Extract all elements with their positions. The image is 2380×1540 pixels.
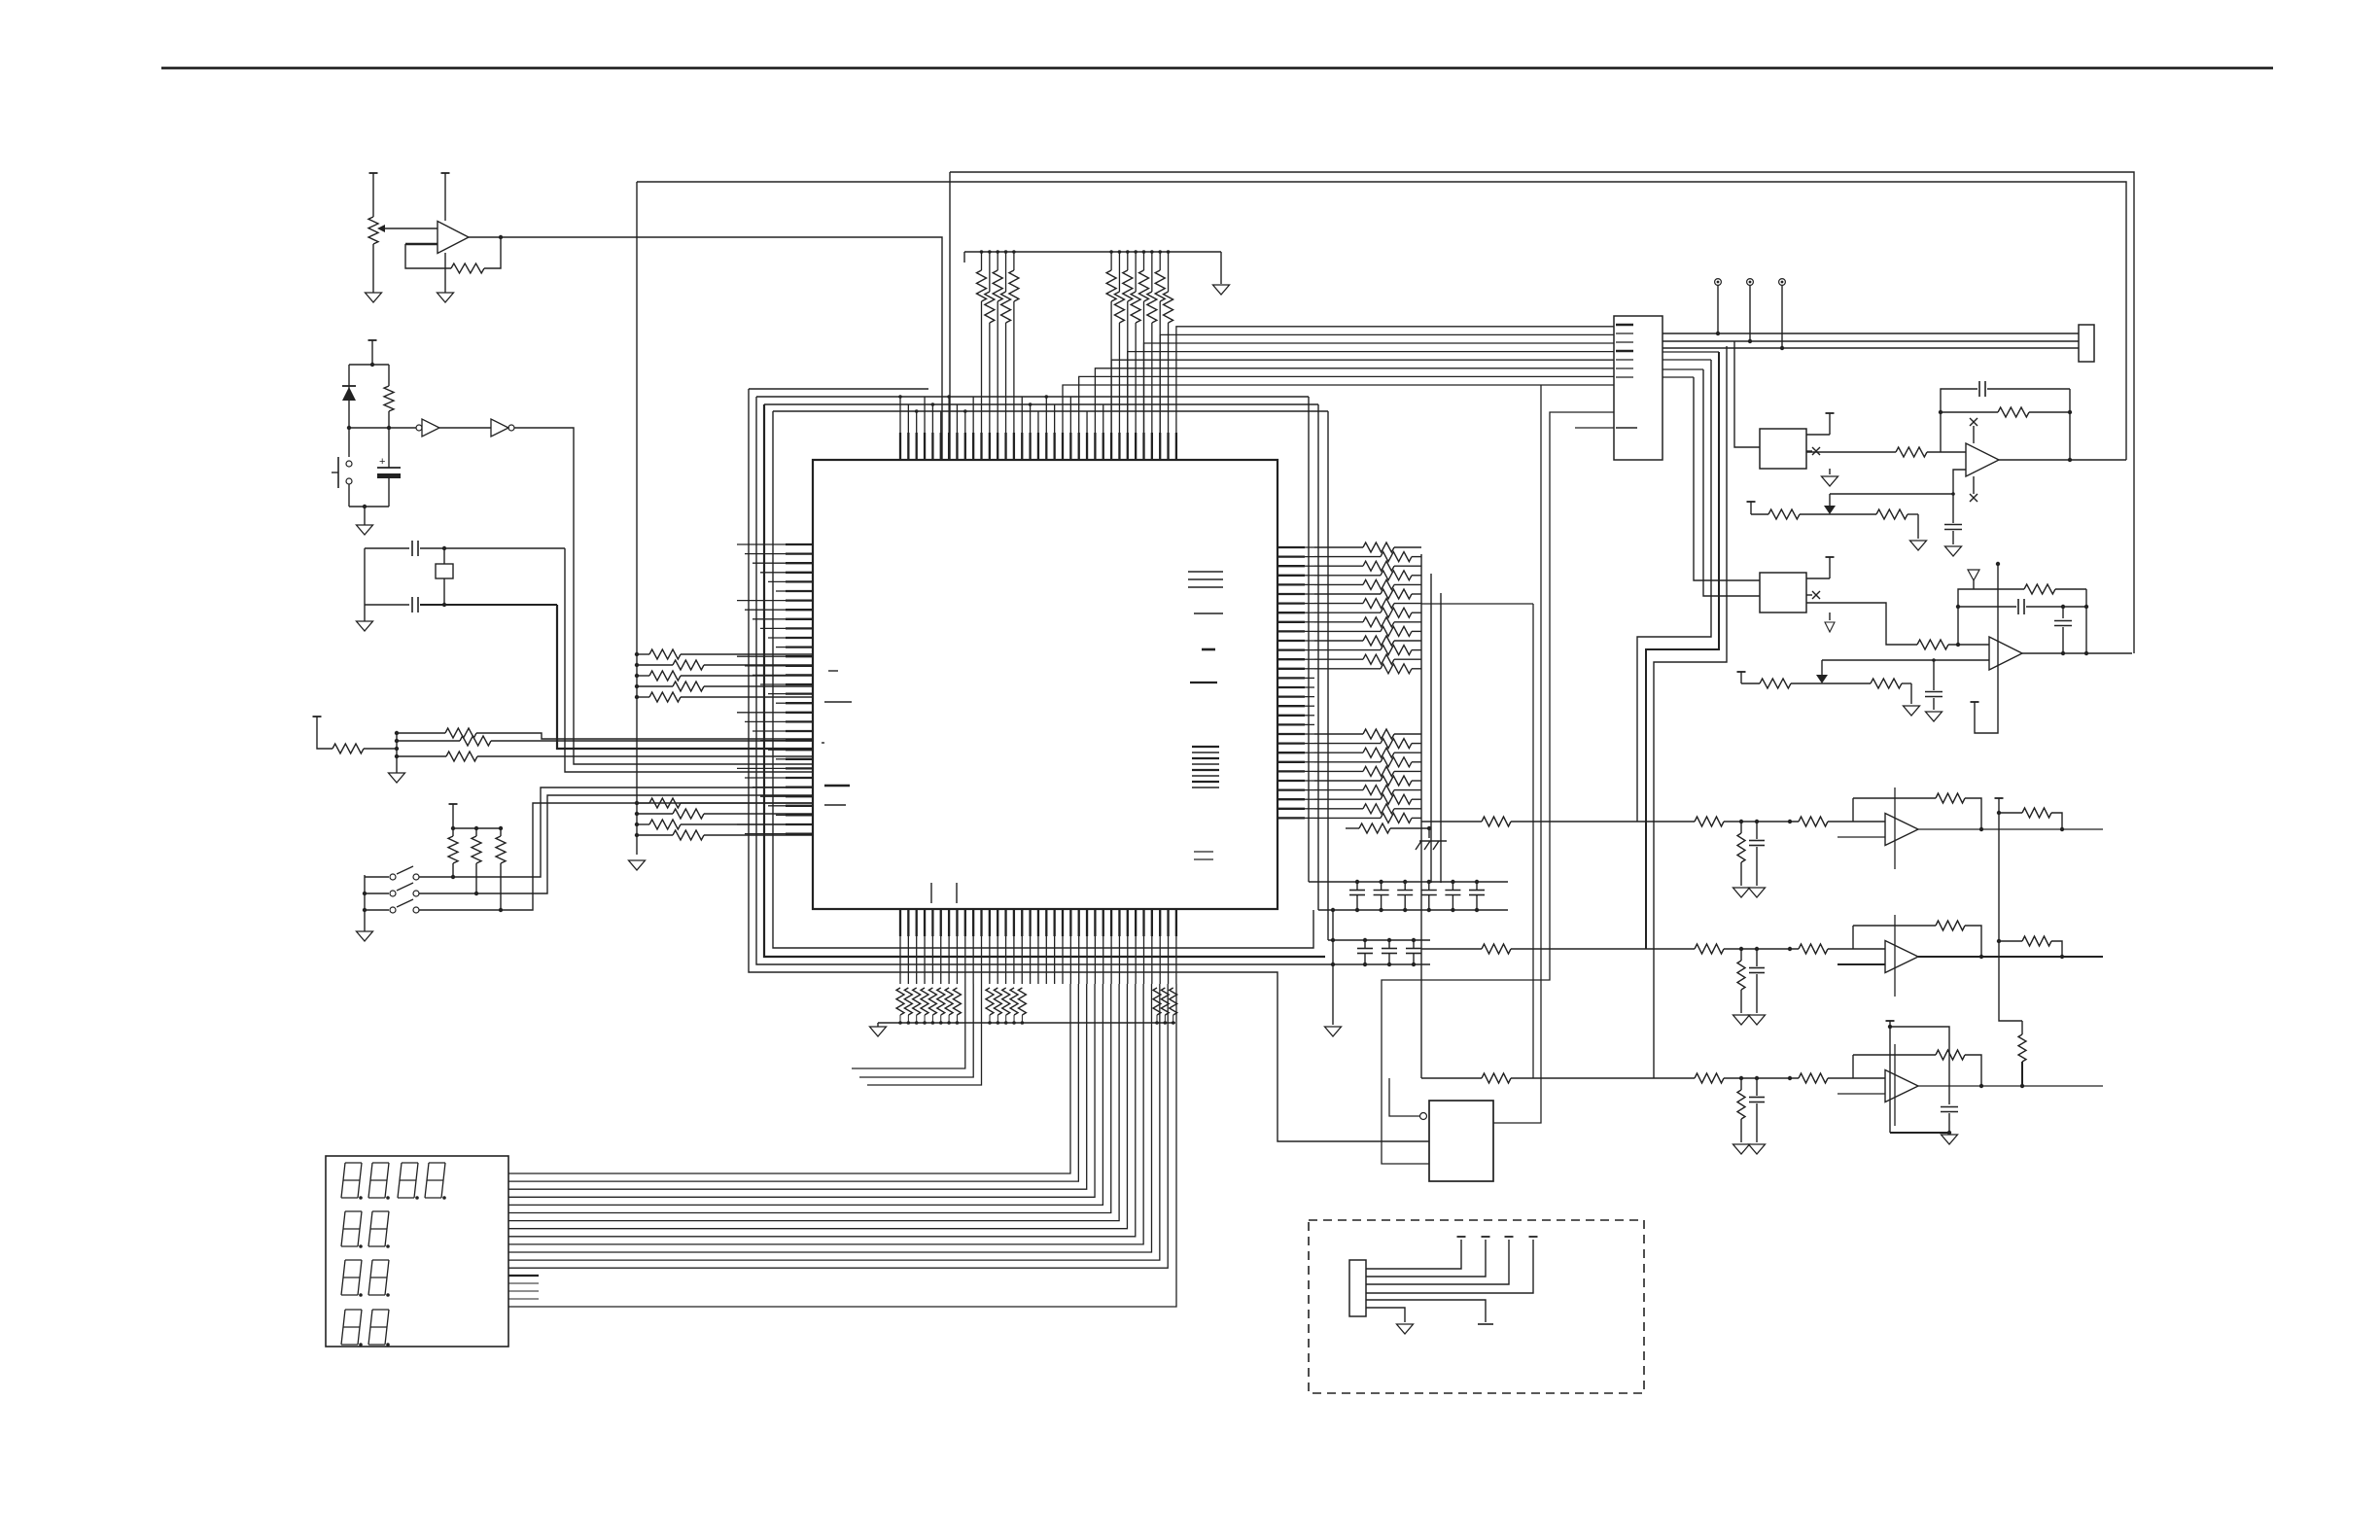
resistor R30 <box>1999 808 2064 831</box>
wire CN2 right pins <box>1662 352 1719 377</box>
capacitor C20 <box>1941 1107 1958 1134</box>
buffer U2B <box>491 419 514 437</box>
ground RA7 <box>870 1027 887 1036</box>
capacitor C1 <box>412 541 418 556</box>
x-mark U12 top <box>1970 418 1977 443</box>
resistor R6 <box>395 728 813 739</box>
transformer T2 <box>1760 573 1806 612</box>
capacitor bank CB2 <box>1328 938 1430 966</box>
test point TP3 <box>1779 279 1786 348</box>
wire bankA rail <box>964 252 1221 262</box>
IC U10 <box>813 460 1277 909</box>
resistor R7 <box>395 736 813 746</box>
ground Rg U15 <box>1733 1015 1750 1025</box>
resistor R5 <box>332 744 399 753</box>
capacitor bank CB1 <box>1309 880 1508 912</box>
ground U13 top <box>1968 570 1979 589</box>
connector CN2 pins <box>1575 325 1637 428</box>
resistor Rin3 U15 <box>1741 944 1885 954</box>
ground T1 <box>1822 469 1838 486</box>
resistor array RA6 (right of IC) <box>1314 542 1421 822</box>
ground Cg U16 <box>1749 1144 1766 1154</box>
wire U11 right <box>1493 385 1541 1123</box>
wire U16 box bottom <box>1890 1027 1951 1135</box>
wire SW bank rail <box>451 826 503 830</box>
display DS1 digits row1 <box>341 1163 446 1200</box>
test point TP1 <box>1715 279 1722 333</box>
transformer T1 <box>1760 429 1806 469</box>
resistor Rg U14 <box>1737 822 1745 886</box>
wire U13 fb cap <box>1956 599 2088 614</box>
ground BT1 <box>357 525 373 535</box>
ground VR1 <box>366 293 382 302</box>
wire U13 box loop <box>1971 562 2001 733</box>
switch SW2 <box>365 866 453 880</box>
ground R5 <box>389 762 405 783</box>
wire RA rail <box>636 182 638 855</box>
wire SW rail <box>363 875 367 931</box>
power terminal U14r <box>1995 798 2004 815</box>
power terminal U1 <box>441 173 450 221</box>
resistor Rg U16 <box>1737 1078 1745 1142</box>
wire CN4 gnd <box>1366 1308 1405 1322</box>
power terminal U16box <box>1886 1021 1895 1027</box>
resistor array RA9 (3) <box>1153 988 1177 1025</box>
wire D1 top rail <box>349 363 389 367</box>
resistor R2 <box>384 365 394 428</box>
capacitor C11 <box>1944 494 1962 544</box>
resistor Rg U15 <box>1737 949 1745 1013</box>
IC U10 pin labels <box>822 572 1223 903</box>
wire U1 negative rail <box>444 253 446 293</box>
ground Rg U14 <box>1733 888 1750 897</box>
svg-text:+: + <box>379 456 385 468</box>
op-amp U15 <box>1885 941 1918 973</box>
wire U13 fb right <box>2084 589 2088 655</box>
wire crystal right dn <box>557 605 813 749</box>
battery BT1 <box>377 428 401 507</box>
wire output U15 <box>1918 956 2103 958</box>
wire loop outer top <box>950 172 2134 653</box>
wire bus rings <box>749 389 1429 1141</box>
resistor R32 <box>2018 1021 2026 1088</box>
resistor R20 <box>1346 823 1431 838</box>
power terminal T1 <box>1806 413 1835 435</box>
wire VR3 gnd leg <box>1910 683 1912 704</box>
power terminal P5 <box>1747 502 1756 514</box>
wire output U14 <box>1918 828 2103 830</box>
op-amp U1 <box>437 222 469 254</box>
IC U10 bottom pins <box>900 909 1176 984</box>
wire U12 fb cap <box>1941 381 2070 452</box>
op-amp U13 <box>1989 637 2022 670</box>
wire inv input U14 <box>1837 836 1885 838</box>
wire rail2 <box>1662 339 2079 343</box>
wire opamp rail U15 <box>1894 915 1896 997</box>
wire fb U14 <box>1853 793 1983 831</box>
wire U11 loop <box>1382 412 1614 1164</box>
wire U1 output <box>469 237 942 460</box>
resistor R8 <box>395 752 813 761</box>
capacitor C14 <box>1925 660 1942 710</box>
wire top horizontal rule <box>161 67 2273 70</box>
ground X1 <box>357 621 373 631</box>
chassis ground <box>1416 841 1447 850</box>
wire RA6 collectors <box>1421 554 1441 1078</box>
wire inv input U16 <box>1837 1093 1885 1095</box>
potentiometer VR3 <box>1741 658 1989 688</box>
ground U1 <box>437 293 454 302</box>
ground Cg U14 <box>1749 888 1766 897</box>
ground Cg U15 <box>1749 1015 1766 1025</box>
wire inter-row <box>1997 813 2022 1021</box>
wire U13 fb res <box>1958 584 2086 645</box>
wire T1 out <box>1806 447 1966 457</box>
wire U1 feedback <box>405 235 503 273</box>
wire loop outer left drop <box>949 172 951 460</box>
wire crystal top <box>365 546 565 550</box>
wire battery bottom rail <box>349 505 389 508</box>
resistor Rin1 U16 <box>1421 1073 1667 1083</box>
ground VR2a <box>1910 541 1927 550</box>
IC U10 left pins <box>737 544 813 834</box>
capacitor C2 <box>412 597 418 612</box>
ground SW rail <box>357 931 373 941</box>
op-amp U12 <box>1966 443 1999 476</box>
potentiometer VR2 <box>1751 494 1953 519</box>
resistor array RA2 (5) <box>635 649 813 702</box>
wire bus under-IC a <box>852 984 965 1068</box>
wire T2 out <box>1806 603 1989 649</box>
resistor Rin2 U14 <box>1667 817 1743 826</box>
display DS1 digits row4 <box>341 1310 390 1347</box>
power terminal P3 <box>313 717 333 749</box>
wire crystal bottom <box>365 603 557 607</box>
wire display line14 <box>508 984 1176 1307</box>
ground CN4 <box>1397 1324 1414 1334</box>
ground C11 <box>1945 546 1962 556</box>
resistor R31 <box>1999 936 2064 959</box>
capacitor Cg U14 <box>1749 820 1765 886</box>
op-amp U14 <box>1885 814 1918 846</box>
wire rail1 <box>1662 332 2079 335</box>
capacitor C13 <box>2054 605 2072 653</box>
wire bus ring tops <box>749 389 1328 411</box>
wire CN4 pin5 <box>1366 1300 1493 1324</box>
wire U16 box <box>1888 1025 1949 1104</box>
wire loop inner top <box>637 182 2126 460</box>
wire cap bank drop <box>1331 908 1335 1025</box>
display DS1 digits row3 <box>341 1260 390 1297</box>
display DS1 <box>326 1156 508 1347</box>
ground T2 <box>1825 612 1835 632</box>
wire U12 fb right <box>2068 389 2072 462</box>
op-amp U16 <box>1885 1070 1918 1102</box>
wire crystal right up <box>565 548 813 772</box>
connector CN4 <box>1349 1260 1366 1316</box>
wire VR2 gnd leg <box>1917 514 1919 539</box>
wire U12 fb res <box>1939 407 2072 417</box>
wire display stubs <box>508 1276 539 1299</box>
resistor array RA4 (5) <box>977 250 1019 433</box>
wire U12 inv in <box>1951 470 1966 496</box>
wire U13 output <box>2022 651 2132 655</box>
ground C14 <box>1926 712 1942 721</box>
wire U12 output <box>1999 459 2126 461</box>
x-mark U12 bot <box>1970 476 1977 502</box>
power terminal VR1 <box>369 172 378 174</box>
ground C20 <box>1942 1135 1958 1144</box>
connector CN2 <box>1614 316 1662 460</box>
power terminal D1 block <box>368 340 377 365</box>
wire R5 node <box>396 733 398 762</box>
resistor Rin2 U15 <box>1667 944 1743 954</box>
wire bus ring right verticals <box>1309 397 1328 940</box>
resistor Rin2 U16 <box>1667 1073 1743 1083</box>
wire bankA gnd drop <box>1220 252 1222 284</box>
diode D1 <box>342 365 356 428</box>
resistor Rin3 U14 <box>1741 817 1885 826</box>
wire RA7 gnd <box>877 1023 879 1027</box>
resistor Rin1 U15 <box>1421 944 1667 954</box>
wire D1 junction rail <box>347 426 391 430</box>
switch SW4 <box>365 899 501 913</box>
wire U11 in1 <box>1389 604 1533 1116</box>
gate U11 <box>1429 1101 1493 1181</box>
wire opamp rail U16 <box>1894 1044 1896 1126</box>
ground cap bank <box>1325 1027 1342 1036</box>
wire CN4 pins <box>1366 1237 1538 1293</box>
capacitor Cg U16 <box>1749 1076 1765 1142</box>
resistor R10 <box>472 828 481 895</box>
display DS1 digits row2 <box>341 1211 390 1248</box>
wire bus under-IC b <box>859 984 973 1077</box>
wire fb U16 <box>1853 1050 1983 1088</box>
buffer U2A <box>416 419 439 437</box>
pushbutton SW1 <box>332 428 352 507</box>
connector CN3 <box>2079 325 2094 362</box>
ground Rg U16 <box>1733 1144 1750 1154</box>
power terminal P6 <box>1737 671 1746 673</box>
gate U11 input bubble <box>1420 1113 1427 1120</box>
resistor array RA8 (5) <box>986 988 1026 1025</box>
wire display bus <box>508 984 1168 1268</box>
IC U10 right pins <box>1277 547 1314 818</box>
wire fb U15 <box>1853 921 1983 959</box>
wire crystal left <box>364 548 366 621</box>
resistor array RA3 (4) <box>635 798 813 840</box>
wire SW3 out <box>476 795 813 893</box>
wire to ground BT1 <box>364 507 366 525</box>
resistor Rin3 U16 <box>1741 1073 1885 1083</box>
wire top pin staircase <box>1063 327 1614 433</box>
resistor R11 <box>496 828 506 912</box>
test point TP2 <box>1747 279 1754 341</box>
ground VR3a <box>1904 706 1920 716</box>
ground bankA <box>1213 285 1230 295</box>
crystal X1 <box>436 548 453 605</box>
wire opamp rail U14 <box>1894 787 1896 869</box>
wire bus under-IC c <box>867 984 982 1085</box>
potentiometer VR1 <box>368 173 437 293</box>
option box (dashed) <box>1309 1220 1644 1393</box>
ground RA rail <box>629 860 646 870</box>
wire U2B output <box>514 428 813 764</box>
resistor array RA7 (8) <box>896 988 961 1025</box>
switch SW3 <box>365 883 476 896</box>
power terminal SW bank <box>449 804 458 828</box>
IC U10 top pins <box>898 395 1176 460</box>
wire SW4 out <box>501 803 813 910</box>
wire output U16 <box>1918 1085 2103 1087</box>
wire inv input U15 <box>1837 963 1885 965</box>
resistor R9 <box>448 828 458 879</box>
x-mark T2 <box>1806 591 1820 599</box>
resistor array RA5 (8) <box>1106 250 1172 433</box>
power terminal T2 <box>1806 557 1835 578</box>
wire U2A-U2B <box>389 427 491 429</box>
resistor Rin1 U14 <box>1421 817 1667 826</box>
x-mark T1 <box>1806 447 1820 455</box>
wire RA7 gnd rail <box>878 1022 1175 1024</box>
wire SW2 out <box>453 787 813 877</box>
wire rail3 <box>1662 346 2079 350</box>
capacitor Cg U15 <box>1749 947 1765 1013</box>
wire CN2 drop bus <box>1637 341 1760 1078</box>
